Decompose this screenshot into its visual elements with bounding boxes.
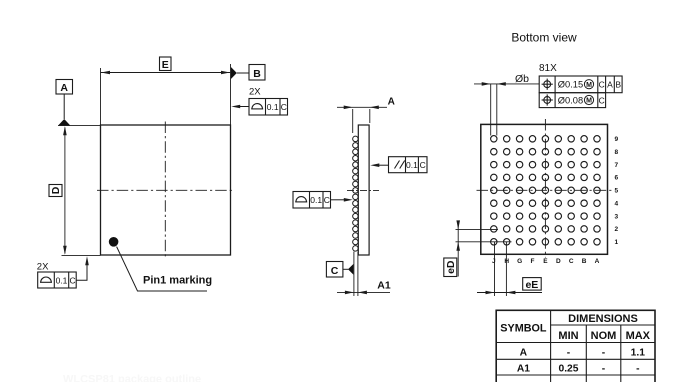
svg-text:C: C bbox=[281, 102, 287, 112]
svg-text:0.25: 0.25 bbox=[558, 363, 578, 374]
parallelism tolerance frame bbox=[389, 157, 428, 173]
datum A label box bbox=[56, 80, 73, 95]
column labels J..A bbox=[492, 258, 600, 265]
dimension D label box bbox=[49, 185, 62, 197]
position tolerance frame (two rows) bbox=[539, 76, 622, 93]
svg-text:A1: A1 bbox=[377, 280, 391, 292]
svg-text:D: D bbox=[50, 186, 62, 194]
bottom view outline bbox=[481, 124, 608, 254]
svg-text:2X: 2X bbox=[249, 87, 261, 98]
side view ball stack bbox=[353, 136, 359, 251]
Øb dimension line bbox=[474, 83, 539, 85]
eD label box bbox=[444, 258, 457, 277]
svg-text:81X: 81X bbox=[539, 63, 557, 74]
leader from frame to right edge bbox=[240, 106, 249, 108]
svg-text:Øb: Øb bbox=[515, 73, 529, 85]
svg-text:B: B bbox=[582, 258, 587, 265]
svg-text:8: 8 bbox=[615, 149, 619, 156]
extension line right corner up bbox=[230, 64, 232, 125]
svg-text:5: 5 bbox=[615, 188, 619, 195]
svg-text:M: M bbox=[586, 82, 592, 89]
svg-text:SYMBOL: SYMBOL bbox=[500, 323, 547, 335]
top view package outline bbox=[101, 125, 231, 255]
svg-text:1.1: 1.1 bbox=[631, 348, 646, 359]
datum B stem bbox=[237, 72, 249, 74]
svg-text:Pin1 marking: Pin1 marking bbox=[143, 274, 212, 286]
svg-text:7: 7 bbox=[615, 162, 619, 169]
dimension E line bbox=[101, 72, 231, 74]
svg-text:DIMENSIONS: DIMENSIONS bbox=[568, 313, 638, 325]
leader profile to balls bbox=[331, 199, 345, 201]
svg-text:3: 3 bbox=[615, 213, 619, 220]
leader from bottom frame up to edge bbox=[76, 263, 87, 280]
top view horizontal centerline bbox=[97, 189, 234, 191]
pin1 leader line bbox=[117, 247, 207, 291]
pin1 marking dot bbox=[109, 237, 119, 247]
svg-text:eD: eD bbox=[445, 260, 457, 274]
svg-text:A: A bbox=[60, 82, 68, 94]
datum C feature triangle bbox=[348, 264, 353, 275]
svg-text:A: A bbox=[595, 258, 600, 265]
A1 extension line seating bbox=[353, 252, 355, 297]
extension line top edge left bbox=[58, 125, 101, 127]
svg-text:C: C bbox=[70, 276, 76, 286]
svg-text:D: D bbox=[556, 258, 561, 265]
svg-text:-: - bbox=[567, 348, 571, 359]
svg-text:4: 4 bbox=[615, 201, 619, 208]
A1 extension line body bottom bbox=[357, 252, 359, 297]
dimensions table bbox=[496, 310, 655, 382]
eE label box bbox=[523, 278, 542, 291]
profile tolerance frame bottom left bbox=[38, 272, 76, 288]
top view vertical centerline bbox=[164, 122, 166, 259]
svg-text:MIN: MIN bbox=[558, 330, 578, 342]
svg-text:6: 6 bbox=[615, 175, 619, 182]
svg-text:1: 1 bbox=[615, 239, 619, 246]
bottom view vertical centerline bbox=[544, 119, 546, 258]
svg-text:Ø0.08: Ø0.08 bbox=[558, 95, 583, 105]
eE extension line col H bbox=[505, 242, 507, 296]
svg-text:A1: A1 bbox=[517, 363, 530, 374]
eD extension line row1 bbox=[456, 241, 512, 243]
svg-text:E: E bbox=[543, 258, 548, 265]
svg-text:B: B bbox=[253, 68, 261, 80]
profile tolerance frame side left bbox=[293, 192, 331, 209]
svg-text:9: 9 bbox=[615, 136, 619, 143]
eE dimension line bbox=[477, 292, 542, 294]
svg-text:F: F bbox=[531, 258, 535, 265]
svg-text:A: A bbox=[388, 97, 395, 108]
svg-text:-: - bbox=[636, 363, 640, 374]
dimension A extension line right bbox=[369, 109, 371, 123]
svg-text:eE: eE bbox=[525, 279, 538, 291]
datum B feature triangle bbox=[231, 67, 237, 79]
extension line bottom edge left bbox=[62, 254, 101, 256]
dimension D line bbox=[64, 128, 66, 254]
svg-text:A: A bbox=[607, 80, 613, 90]
side view body bbox=[358, 125, 369, 255]
svg-text:G: G bbox=[517, 258, 522, 265]
eD extension line row2 bbox=[456, 228, 499, 230]
datum B label box bbox=[249, 65, 265, 81]
eE extension line col J bbox=[494, 242, 496, 296]
svg-text:0.1: 0.1 bbox=[406, 160, 418, 170]
svg-text:0.1: 0.1 bbox=[310, 195, 322, 205]
bottom view horizontal centerline bbox=[477, 189, 614, 191]
profile tolerance frame top right bbox=[249, 99, 288, 116]
datum C stem bbox=[343, 268, 348, 270]
svg-text:C: C bbox=[324, 195, 330, 205]
svg-text:Ø0.15: Ø0.15 bbox=[558, 80, 583, 90]
svg-text:NOM: NOM bbox=[591, 330, 617, 342]
svg-text:-: - bbox=[602, 363, 606, 374]
svg-text:E: E bbox=[162, 59, 169, 71]
dimension A extension line left bbox=[352, 109, 354, 133]
svg-text:2: 2 bbox=[615, 226, 619, 233]
svg-text:WLCSP81 package outline: WLCSP81 package outline bbox=[63, 374, 201, 382]
datum A stem bbox=[63, 94, 65, 119]
ball grid 81 balls bbox=[491, 136, 601, 245]
svg-text:A: A bbox=[520, 348, 528, 359]
extension line left corner up bbox=[100, 68, 102, 125]
svg-text:C: C bbox=[599, 80, 605, 90]
row labels 1-9 bbox=[615, 136, 619, 246]
svg-text:J: J bbox=[492, 258, 496, 265]
eD dimension line bbox=[457, 221, 459, 277]
svg-text:B: B bbox=[615, 80, 621, 90]
dimension A1 line bbox=[337, 291, 390, 293]
leader parallelism to body bbox=[379, 164, 389, 166]
svg-text:C: C bbox=[420, 160, 426, 170]
svg-text:MAX: MAX bbox=[626, 330, 651, 342]
svg-text:-: - bbox=[602, 348, 606, 359]
svg-text:C: C bbox=[331, 265, 339, 277]
side view centerline bbox=[347, 189, 379, 191]
svg-text:2X: 2X bbox=[37, 262, 49, 273]
svg-text:0.1: 0.1 bbox=[56, 276, 68, 286]
datum A feature triangle bbox=[58, 119, 70, 125]
Øb extension lines bbox=[490, 84, 492, 136]
datum C label box bbox=[326, 262, 343, 278]
svg-text:0.1: 0.1 bbox=[267, 102, 279, 112]
dimension E label box bbox=[160, 57, 172, 71]
dimension A line bbox=[337, 106, 387, 108]
svg-text:C: C bbox=[599, 95, 605, 105]
svg-text:C: C bbox=[569, 258, 574, 265]
svg-text:M: M bbox=[586, 98, 592, 105]
svg-text:Bottom view: Bottom view bbox=[511, 31, 577, 45]
